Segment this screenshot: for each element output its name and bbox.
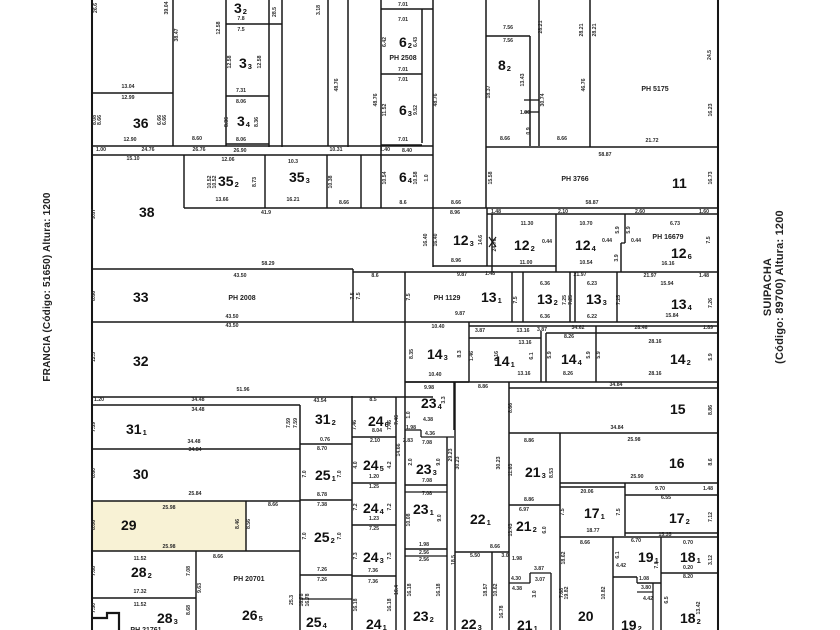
wire h lot36 top bbox=[92, 92, 173, 94]
svg-text:7.5: 7.5 bbox=[513, 296, 519, 303]
svg-text:7.25: 7.25 bbox=[369, 526, 379, 532]
svg-text:7.56: 7.56 bbox=[503, 38, 513, 44]
svg-text:6.23: 6.23 bbox=[587, 281, 597, 287]
svg-text:15.35: 15.35 bbox=[659, 532, 672, 538]
wire v x300 bbox=[299, 405, 301, 630]
svg-text:28.16: 28.16 bbox=[649, 371, 662, 377]
svg-text:16.40: 16.40 bbox=[433, 233, 439, 246]
svg-text:10.40: 10.40 bbox=[432, 324, 445, 330]
svg-text:8.86: 8.86 bbox=[524, 438, 534, 444]
svg-text:7.01: 7.01 bbox=[398, 17, 408, 23]
svg-text:7.46: 7.46 bbox=[352, 420, 358, 430]
svg-text:25.98: 25.98 bbox=[628, 437, 641, 443]
wire v x492 lot22 lower divider bbox=[491, 552, 493, 630]
svg-text:7.26: 7.26 bbox=[317, 577, 327, 583]
svg-text:4.36: 4.36 bbox=[425, 431, 435, 437]
wire v x512 lot13-1 right bbox=[511, 272, 513, 322]
wire v x551 lot21-1 right bbox=[550, 573, 552, 630]
svg-text:6.70: 6.70 bbox=[631, 538, 641, 544]
svg-text:12.99: 12.99 bbox=[122, 95, 135, 101]
wire h lot16 bottom bbox=[560, 482, 718, 484]
svg-text:6.22: 6.22 bbox=[587, 314, 597, 320]
svg-text:21.97: 21.97 bbox=[574, 272, 587, 278]
wire v x348 bbox=[347, 0, 349, 147]
svg-text:14.6: 14.6 bbox=[478, 235, 484, 245]
svg-text:8.70: 8.70 bbox=[317, 446, 327, 452]
svg-text:26.76: 26.76 bbox=[193, 147, 206, 153]
svg-text:8.86: 8.86 bbox=[91, 291, 97, 301]
svg-text:48.76: 48.76 bbox=[433, 93, 439, 106]
wire h lot14-1 top bbox=[469, 337, 541, 339]
svg-text:8.3: 8.3 bbox=[457, 350, 463, 357]
svg-text:10.31: 10.31 bbox=[330, 147, 343, 153]
wire h y382 lot14 row bottom bbox=[405, 381, 718, 383]
wire h passage top y146 bbox=[92, 145, 433, 147]
svg-text:43.50: 43.50 bbox=[226, 314, 239, 320]
svg-text:28.21: 28.21 bbox=[579, 23, 585, 36]
svg-text:9.98: 9.98 bbox=[424, 385, 434, 391]
wire h lot22 bottom bbox=[455, 551, 509, 553]
svg-text:15.58: 15.58 bbox=[488, 171, 494, 184]
svg-text:3.0: 3.0 bbox=[501, 553, 508, 559]
svg-text:20.06: 20.06 bbox=[581, 489, 594, 495]
svg-text:2.56: 2.56 bbox=[419, 550, 429, 556]
svg-text:26.6: 26.6 bbox=[93, 3, 99, 13]
svg-text:12.06: 12.06 bbox=[222, 157, 235, 163]
svg-text:16.40: 16.40 bbox=[423, 233, 429, 246]
svg-text:11.52: 11.52 bbox=[134, 602, 147, 608]
svg-text:16.18: 16.18 bbox=[407, 583, 413, 596]
parcel 29 highlight fill bbox=[92, 501, 246, 551]
wire h lot21-3 bottom bbox=[509, 504, 560, 506]
svg-text:28.16: 28.16 bbox=[649, 339, 662, 345]
svg-text:8.73: 8.73 bbox=[252, 177, 258, 187]
svg-text:2.0: 2.0 bbox=[408, 458, 414, 465]
svg-text:7.36: 7.36 bbox=[368, 568, 378, 574]
wire v x361 bbox=[360, 155, 362, 208]
svg-text:6.43: 6.43 bbox=[413, 37, 419, 47]
svg-text:7.39: 7.39 bbox=[91, 422, 97, 432]
svg-text:1.00: 1.00 bbox=[96, 147, 106, 153]
wire h lot24-6 bottom bbox=[352, 436, 396, 438]
svg-text:16.21: 16.21 bbox=[287, 197, 300, 203]
svg-text:26.90: 26.90 bbox=[234, 148, 247, 154]
wire h y322 main bbox=[92, 321, 718, 323]
svg-text:2.56: 2.56 bbox=[419, 557, 429, 563]
svg-text:34.48: 34.48 bbox=[188, 439, 201, 445]
svg-text:7.0: 7.0 bbox=[302, 470, 308, 477]
svg-text:7.0: 7.0 bbox=[302, 532, 308, 539]
svg-text:15: 15 bbox=[670, 401, 686, 417]
svg-text:8.66: 8.66 bbox=[268, 502, 278, 508]
svg-text:6.5: 6.5 bbox=[664, 596, 670, 603]
wire v x546 lot14-4 left bbox=[545, 333, 547, 382]
svg-text:16.73: 16.73 bbox=[708, 171, 714, 184]
svg-text:39.04: 39.04 bbox=[164, 1, 170, 14]
wire v x327 lot35-3 right bbox=[326, 155, 328, 208]
wire v x492 lot12-2 left bbox=[491, 214, 493, 272]
svg-text:8.66: 8.66 bbox=[557, 136, 567, 142]
svg-text:1.08: 1.08 bbox=[639, 576, 649, 582]
svg-text:9.87: 9.87 bbox=[91, 209, 97, 219]
wire v x455 lot22 left bbox=[454, 382, 456, 630]
svg-text:6.1: 6.1 bbox=[529, 352, 535, 359]
svg-text:4.38: 4.38 bbox=[512, 586, 522, 592]
svg-text:3.87: 3.87 bbox=[537, 327, 547, 333]
wire v x405 bbox=[404, 272, 406, 630]
svg-text:21.97: 21.97 bbox=[644, 273, 657, 279]
svg-text:6.36: 6.36 bbox=[540, 314, 550, 320]
wire h lot15 bottom bbox=[509, 432, 718, 434]
wire h y405 lot31-1 top bbox=[92, 404, 300, 406]
wire h lot8-2 top bbox=[486, 35, 530, 37]
svg-text:58.29: 58.29 bbox=[262, 261, 275, 267]
svg-text:1.0: 1.0 bbox=[424, 174, 430, 181]
svg-text:18.77: 18.77 bbox=[587, 528, 600, 534]
svg-text:3.80: 3.80 bbox=[641, 585, 651, 591]
svg-text:7.8: 7.8 bbox=[237, 16, 244, 22]
svg-text:16.18: 16.18 bbox=[353, 598, 359, 611]
wire h lot19-2 notch bbox=[637, 591, 653, 593]
wire v x596 lot14-4/2 divider bbox=[595, 326, 597, 382]
svg-text:1.23: 1.23 bbox=[369, 516, 379, 522]
svg-text:SUIPACHA: SUIPACHA bbox=[762, 258, 774, 316]
svg-text:7.5: 7.5 bbox=[616, 508, 622, 515]
wire h lot21-2 bottom b bbox=[530, 572, 551, 574]
svg-text:1.30: 1.30 bbox=[520, 110, 530, 116]
svg-text:58.87: 58.87 bbox=[586, 200, 599, 206]
wire v x653 lot19-2 inset bbox=[652, 583, 654, 630]
svg-text:8.6: 8.6 bbox=[399, 200, 406, 206]
wire v lot21-2 step bbox=[529, 573, 531, 583]
wire h lot12-3 lot12-2 bottom bbox=[433, 265, 556, 267]
wire h y326 lot14 row top bbox=[469, 325, 718, 327]
svg-text:9.0: 9.0 bbox=[437, 514, 443, 521]
svg-text:8.66: 8.66 bbox=[213, 554, 223, 560]
wire v x447 lot23 right bbox=[446, 437, 448, 630]
svg-text:58.87: 58.87 bbox=[599, 152, 612, 158]
svg-text:7.31: 7.31 bbox=[236, 88, 246, 94]
wire v x530 lot8 inner bbox=[529, 36, 531, 146]
svg-text:12.58: 12.58 bbox=[216, 21, 222, 34]
svg-text:10.54: 10.54 bbox=[382, 171, 388, 184]
svg-text:18.62: 18.62 bbox=[561, 551, 567, 564]
wire h lot3-2 bottom bbox=[226, 23, 282, 25]
svg-text:7.08: 7.08 bbox=[91, 566, 97, 576]
svg-text:10.38: 10.38 bbox=[328, 175, 334, 188]
svg-text:6.36: 6.36 bbox=[540, 281, 550, 287]
wire v x246 lot29 right bbox=[245, 501, 247, 551]
svg-text:7.50: 7.50 bbox=[91, 603, 97, 613]
svg-text:8.35: 8.35 bbox=[409, 349, 415, 359]
svg-text:13.43: 13.43 bbox=[508, 523, 514, 536]
wire h y551 lot29 bottom bbox=[92, 550, 300, 552]
svg-text:8.40: 8.40 bbox=[402, 148, 412, 154]
svg-text:1.98: 1.98 bbox=[512, 556, 522, 562]
wire h lot3-3 bottom bbox=[226, 95, 269, 97]
wire h lot17-1 top bbox=[560, 486, 625, 488]
svg-text:10.54: 10.54 bbox=[580, 260, 593, 266]
svg-text:8.06: 8.06 bbox=[236, 99, 246, 105]
boundary left street line FRANCIA bbox=[91, 0, 93, 630]
svg-text:7.46: 7.46 bbox=[387, 420, 393, 430]
wire v x621 lot12-6 left lower bbox=[620, 243, 622, 272]
svg-text:PH 2508: PH 2508 bbox=[389, 55, 416, 62]
svg-text:9.87: 9.87 bbox=[457, 272, 467, 278]
svg-text:(Código: 89700) Altura: 1200: (Código: 89700) Altura: 1200 bbox=[774, 210, 786, 364]
wire h lot24-3 bottom bbox=[352, 575, 396, 577]
svg-text:0.44: 0.44 bbox=[602, 238, 612, 244]
wire v x560 bbox=[559, 433, 561, 630]
svg-text:34.84: 34.84 bbox=[610, 382, 623, 388]
svg-text:8.66: 8.66 bbox=[490, 544, 500, 550]
wire v x454 lot23-4 right bbox=[453, 382, 455, 430]
svg-text:18.37: 18.37 bbox=[486, 85, 492, 98]
svg-text:6.73: 6.73 bbox=[670, 221, 680, 227]
svg-text:34.48: 34.48 bbox=[192, 407, 205, 413]
svg-text:10.70: 10.70 bbox=[580, 221, 593, 227]
svg-text:10.3: 10.3 bbox=[288, 159, 298, 165]
svg-text:7.5: 7.5 bbox=[560, 508, 566, 515]
wire v x617 lot13-3 right bbox=[616, 272, 618, 322]
svg-text:11.30: 11.30 bbox=[521, 221, 534, 227]
svg-text:PH 16679: PH 16679 bbox=[652, 234, 683, 241]
svg-text:2.10: 2.10 bbox=[558, 209, 568, 215]
svg-text:12.3: 12.3 bbox=[91, 352, 97, 362]
svg-text:2.10: 2.10 bbox=[370, 438, 380, 444]
wire h lot14-2 top bbox=[596, 332, 718, 334]
svg-text:PH 2008: PH 2008 bbox=[228, 295, 255, 302]
svg-text:41.9: 41.9 bbox=[261, 210, 271, 216]
wire h lot21-2 bottom a bbox=[509, 582, 530, 584]
svg-text:30.74: 30.74 bbox=[540, 93, 546, 106]
svg-text:12.58: 12.58 bbox=[257, 55, 263, 68]
wire v x556 lot12-2/4 divider bbox=[555, 214, 557, 272]
svg-text:21.72: 21.72 bbox=[646, 138, 659, 144]
svg-text:0.70: 0.70 bbox=[683, 540, 693, 546]
svg-text:PH 3766: PH 3766 bbox=[561, 176, 588, 183]
svg-text:8.66: 8.66 bbox=[508, 403, 514, 413]
wire h lot12 notch bbox=[621, 242, 625, 244]
boundary right street line SUIPACHA bbox=[717, 0, 719, 630]
svg-text:7.38: 7.38 bbox=[317, 502, 327, 508]
svg-text:34.84: 34.84 bbox=[611, 425, 624, 431]
wire h y208 main bbox=[184, 207, 718, 209]
svg-text:1.48: 1.48 bbox=[699, 273, 709, 279]
svg-text:16.18: 16.18 bbox=[436, 583, 442, 596]
svg-text:1.89: 1.89 bbox=[703, 325, 713, 331]
svg-text:7.0: 7.0 bbox=[337, 532, 343, 539]
svg-text:34.48: 34.48 bbox=[192, 397, 205, 403]
wire h lot23-2 top bbox=[405, 555, 447, 557]
wire h lot19-1 bottom b bbox=[637, 582, 661, 584]
svg-text:8.66: 8.66 bbox=[580, 540, 590, 546]
svg-text:0.9: 0.9 bbox=[526, 127, 532, 134]
svg-text:16.4: 16.4 bbox=[394, 585, 400, 595]
svg-text:28.21: 28.21 bbox=[538, 20, 544, 33]
wire h y147 PH5175 bottom bbox=[486, 146, 718, 148]
svg-text:1.98: 1.98 bbox=[419, 542, 429, 548]
svg-text:25.98: 25.98 bbox=[163, 544, 176, 550]
svg-text:29.23: 29.23 bbox=[448, 448, 454, 461]
svg-text:48.76: 48.76 bbox=[373, 93, 379, 106]
svg-text:9.0: 9.0 bbox=[436, 458, 442, 465]
wire v x352 bbox=[351, 396, 353, 630]
svg-text:3.3: 3.3 bbox=[441, 396, 447, 403]
svg-text:38.47: 38.47 bbox=[174, 28, 180, 41]
svg-text:7.0: 7.0 bbox=[337, 470, 343, 477]
svg-text:15.10: 15.10 bbox=[127, 156, 140, 162]
svg-text:33: 33 bbox=[133, 289, 149, 305]
svg-text:12.58: 12.58 bbox=[227, 55, 233, 68]
svg-text:3.18: 3.18 bbox=[316, 5, 322, 15]
wire v x269 lot3 right bbox=[268, 0, 270, 147]
svg-text:20: 20 bbox=[578, 608, 594, 624]
svg-text:17.32: 17.32 bbox=[134, 589, 147, 595]
wire h lot6-2 bottom bbox=[381, 73, 422, 75]
svg-text:11: 11 bbox=[672, 175, 687, 191]
svg-text:30.23: 30.23 bbox=[496, 456, 502, 469]
wire h lot19-1 bottom a bbox=[613, 576, 637, 578]
svg-text:8.66: 8.66 bbox=[339, 200, 349, 206]
svg-text:30: 30 bbox=[133, 466, 149, 482]
svg-text:16.23: 16.23 bbox=[708, 103, 714, 116]
svg-text:48.76: 48.76 bbox=[334, 78, 340, 91]
wire h lot6-3 bottom bbox=[381, 144, 422, 146]
wire h lot17-2 bottom bbox=[625, 532, 718, 534]
svg-text:16: 16 bbox=[669, 455, 685, 471]
svg-text:36: 36 bbox=[133, 115, 149, 131]
svg-text:28.21: 28.21 bbox=[592, 23, 598, 36]
wire v x541 lot14-1 right bbox=[540, 331, 542, 382]
wire h lot3-4 bottom bbox=[226, 143, 269, 145]
svg-text:7.2: 7.2 bbox=[353, 503, 359, 510]
svg-text:7.3: 7.3 bbox=[387, 552, 393, 559]
svg-text:8.46: 8.46 bbox=[235, 519, 241, 529]
svg-text:8.56: 8.56 bbox=[246, 519, 252, 529]
svg-text:10.52: 10.52 bbox=[212, 175, 218, 188]
svg-text:15.94: 15.94 bbox=[661, 281, 674, 287]
svg-text:25.3: 25.3 bbox=[289, 595, 295, 605]
svg-text:5.9: 5.9 bbox=[708, 353, 714, 360]
svg-text:34.84: 34.84 bbox=[189, 447, 202, 453]
svg-text:8.86: 8.86 bbox=[708, 405, 714, 415]
svg-text:9.87: 9.87 bbox=[455, 311, 465, 317]
svg-text:1.25: 1.25 bbox=[369, 484, 379, 490]
wire v x590 PH5175 left bbox=[589, 0, 591, 147]
svg-text:28.5: 28.5 bbox=[272, 7, 278, 17]
svg-text:8.66: 8.66 bbox=[451, 200, 461, 206]
wire h lot17-2 top bbox=[625, 494, 718, 496]
svg-text:11.52: 11.52 bbox=[382, 104, 388, 117]
svg-text:8.53: 8.53 bbox=[549, 468, 555, 478]
wire v x381 lot6 left bbox=[380, 0, 382, 208]
svg-text:8.66: 8.66 bbox=[97, 115, 103, 125]
svg-text:5.9: 5.9 bbox=[615, 226, 621, 233]
svg-text:1.20: 1.20 bbox=[94, 397, 104, 403]
svg-text:6.0: 6.0 bbox=[542, 526, 548, 533]
svg-text:5.9: 5.9 bbox=[626, 226, 632, 233]
svg-text:7.08: 7.08 bbox=[422, 440, 432, 446]
svg-text:46.76: 46.76 bbox=[581, 78, 587, 91]
svg-text:0.76: 0.76 bbox=[320, 437, 330, 443]
svg-text:16.18: 16.18 bbox=[387, 598, 393, 611]
svg-text:24.5: 24.5 bbox=[707, 50, 713, 60]
wire h lot23-4 jog b bbox=[421, 436, 454, 438]
wire h y272 lot13 row top bbox=[353, 271, 718, 273]
wire v x486 lot8 left bbox=[485, 0, 487, 208]
wire v x433 bbox=[432, 0, 434, 267]
svg-text:7.26: 7.26 bbox=[317, 567, 327, 573]
wire h lot15 top bbox=[509, 387, 718, 389]
wire h lot23-3 bottom bbox=[405, 484, 447, 486]
svg-text:8.36: 8.36 bbox=[254, 117, 260, 127]
svg-text:FRANCIA (Código: 51650) Altura: FRANCIA (Código: 51650) Altura: 1200 bbox=[42, 192, 53, 382]
wire v lot19 step bbox=[636, 577, 638, 583]
svg-text:0.20: 0.20 bbox=[683, 565, 693, 571]
svg-text:6.66: 6.66 bbox=[162, 115, 168, 125]
svg-text:1.48: 1.48 bbox=[703, 486, 713, 492]
node lot35 corner bbox=[183, 207, 185, 209]
wire v x184 lot35-2 left bbox=[183, 155, 185, 208]
svg-text:7.08: 7.08 bbox=[186, 566, 192, 576]
svg-text:5.9: 5.9 bbox=[596, 351, 602, 358]
svg-text:8.86: 8.86 bbox=[478, 384, 488, 390]
svg-text:8.06: 8.06 bbox=[91, 520, 97, 530]
svg-text:0.44: 0.44 bbox=[631, 238, 641, 244]
svg-text:3.87: 3.87 bbox=[534, 566, 544, 572]
wire h y501 lot30 bottom bbox=[92, 500, 300, 502]
svg-text:11.52: 11.52 bbox=[134, 556, 147, 562]
svg-text:8.36: 8.36 bbox=[224, 117, 230, 127]
wire v lot23-4 jog bbox=[420, 430, 422, 437]
svg-text:7.12: 7.12 bbox=[708, 512, 714, 522]
svg-text:8.5: 8.5 bbox=[369, 397, 376, 403]
svg-text:1.48: 1.48 bbox=[491, 209, 501, 215]
svg-text:7.5: 7.5 bbox=[237, 27, 244, 33]
wire v x353 lot33 right bbox=[352, 269, 354, 322]
wire v x469 lot14-3 right bbox=[468, 322, 470, 382]
svg-text:7.56: 7.56 bbox=[503, 25, 513, 31]
wire h y537 lot18-19-20 row top bbox=[560, 536, 718, 538]
wire h lot31-2 bottom bbox=[300, 443, 352, 445]
wire v x523 lot13-2 left bbox=[522, 272, 524, 322]
svg-text:16.78: 16.78 bbox=[305, 593, 311, 606]
wire v x575 lot13-3 left bbox=[574, 272, 576, 322]
svg-text:51.96: 51.96 bbox=[237, 387, 250, 393]
svg-text:7.59: 7.59 bbox=[286, 418, 292, 428]
svg-text:4.42: 4.42 bbox=[616, 563, 626, 569]
svg-text:8.68: 8.68 bbox=[186, 605, 192, 615]
wire v x509 bbox=[508, 382, 510, 630]
svg-text:7.01: 7.01 bbox=[398, 2, 408, 8]
svg-text:1.40: 1.40 bbox=[380, 147, 390, 153]
wire v x422 lot6 inner right bbox=[421, 9, 423, 143]
svg-text:7.5: 7.5 bbox=[706, 236, 712, 243]
svg-text:15.84: 15.84 bbox=[666, 313, 679, 319]
svg-text:25.90: 25.90 bbox=[631, 474, 644, 480]
svg-text:4.2: 4.2 bbox=[387, 461, 393, 468]
wire v x173 col A/B bbox=[172, 0, 174, 146]
svg-text:9.63: 9.63 bbox=[197, 583, 203, 593]
svg-text:7.08: 7.08 bbox=[422, 491, 432, 497]
svg-text:4.30: 4.30 bbox=[511, 576, 521, 582]
svg-text:7.01: 7.01 bbox=[398, 137, 408, 143]
svg-text:7.0: 7.0 bbox=[654, 561, 660, 568]
svg-text:8.60: 8.60 bbox=[91, 468, 97, 478]
svg-text:7.36: 7.36 bbox=[368, 579, 378, 585]
wire v x396 lot24 right bbox=[395, 397, 397, 630]
